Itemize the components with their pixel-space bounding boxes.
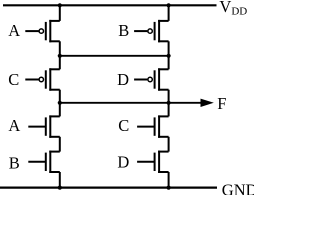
svg-text:D: D	[117, 70, 129, 89]
transistor Q6 NMOS input B	[28, 151, 60, 173]
node: GND junction left	[58, 186, 62, 190]
svg-text:F: F	[217, 94, 226, 113]
svg-text:C: C	[8, 70, 19, 89]
node: VDD junction left	[58, 3, 62, 7]
wire: VDD to Q2 drain	[168, 5, 170, 21]
transistor Q1 PMOS input A	[25, 20, 60, 42]
transistor Q7 NMOS input C	[137, 115, 169, 137]
svg-text:D: D	[117, 153, 129, 172]
node: mid junction left	[58, 54, 62, 58]
node: GND junction right	[167, 186, 171, 190]
wire: Q6 source to GND	[59, 172, 61, 188]
wire: mid node horizontal	[60, 55, 169, 57]
wire: Q2 source to mid node	[168, 41, 170, 56]
wire: Q8 source to GND	[168, 172, 170, 188]
wire: mid node to Q3 drain	[59, 56, 61, 70]
svg-text:B: B	[118, 21, 129, 40]
VDD rail wire	[3, 4, 217, 6]
node: mid junction right	[167, 54, 171, 58]
wire: Q5 source to Q6 drain	[59, 137, 61, 152]
transistor Q5 NMOS input A	[28, 115, 60, 137]
wire: Q3 source to output node	[59, 90, 61, 103]
svg-text:C: C	[118, 116, 129, 135]
transistor Q2 PMOS input B	[134, 20, 169, 42]
wire: Q4 source to output node	[168, 90, 170, 103]
GND rail wire	[0, 187, 217, 189]
transistor Q4 PMOS input D	[134, 68, 169, 90]
wire: VDD to Q1 drain	[59, 5, 61, 21]
svg-text:GND: GND	[222, 180, 254, 195]
node: output junction left	[58, 101, 62, 105]
svg-text:A: A	[8, 116, 20, 135]
node: output junction right	[167, 101, 171, 105]
transistor Q3 PMOS input C	[25, 68, 60, 90]
wire: output line F	[60, 102, 202, 104]
wire: Q7 source to Q8 drain	[168, 137, 170, 152]
wire: mid node to Q4 drain	[168, 56, 170, 70]
wire: output node to Q5 drain	[59, 103, 61, 117]
wire: output node to Q7 drain	[168, 103, 170, 117]
svg-text:B: B	[9, 154, 20, 173]
output arrowhead	[201, 99, 214, 107]
transistor Q8 NMOS input D	[137, 151, 169, 173]
svg-text:VDD: VDD	[219, 0, 247, 18]
node: VDD junction right	[167, 3, 171, 7]
wire: Q1 source to mid node	[59, 41, 61, 56]
svg-text:A: A	[8, 21, 20, 40]
